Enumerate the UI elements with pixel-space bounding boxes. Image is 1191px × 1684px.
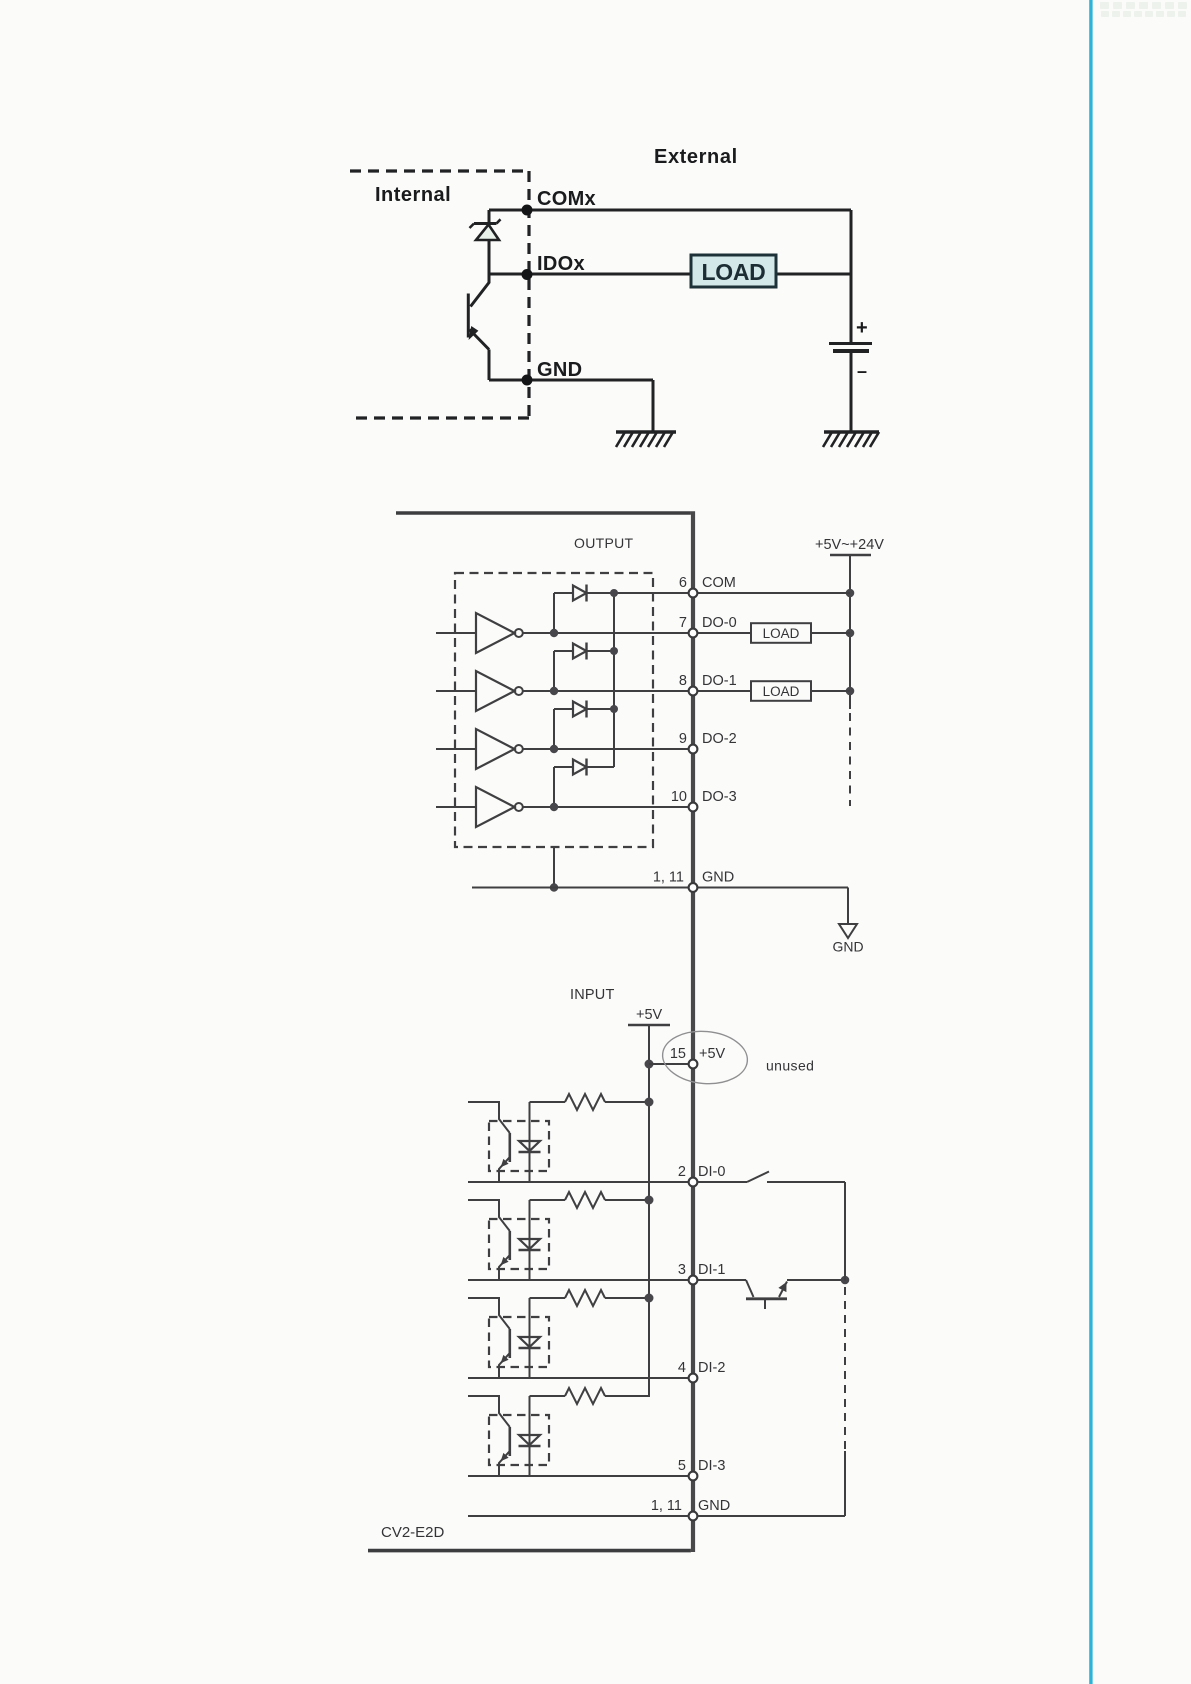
- svg-text:INPUT: INPUT: [570, 987, 615, 1003]
- wire right vertical dashed: [844, 1287, 846, 1451]
- svg-text:8: 8: [679, 673, 687, 689]
- decorative blue rule: [1089, 0, 1092, 1684]
- svg-text:IDOx: IDOx: [537, 253, 585, 275]
- supply rail bar: [830, 554, 871, 556]
- svg-text:1, 11: 1, 11: [653, 870, 684, 886]
- zener diode D1: [470, 219, 501, 274]
- diode D4: [554, 759, 614, 804]
- transistor Q2 external: [697, 1280, 845, 1309]
- battery BT1: [829, 344, 872, 432]
- connector bus thick vertical: [691, 511, 695, 1552]
- svg-text:GND: GND: [702, 870, 734, 886]
- wire DI-1: [468, 1279, 689, 1281]
- diode D3: [554, 701, 614, 746]
- wire COMx: [489, 209, 851, 212]
- supply rail wire: [849, 555, 851, 709]
- ground symbol left: [616, 432, 676, 447]
- svg-text:DI-2: DI-2: [698, 1360, 725, 1376]
- pin 5 DI-3: [678, 1458, 725, 1480]
- ground symbol GND arrow: [839, 924, 857, 938]
- transistor Q1: [468, 274, 489, 380]
- junction +24V/COM: [846, 589, 855, 598]
- wire LOAD to supply DO-1: [811, 690, 850, 692]
- svg-text:DI-0: DI-0: [698, 1164, 725, 1180]
- svg-text:2: 2: [678, 1164, 686, 1180]
- svg-text:+5V: +5V: [699, 1046, 726, 1062]
- inverter U1D: [436, 787, 689, 827]
- +5V rail bar: [628, 1024, 670, 1026]
- svg-text:6: 6: [679, 575, 687, 591]
- svg-text:DI-1: DI-1: [698, 1262, 725, 1278]
- internal dashed boundary box: [350, 171, 529, 418]
- node COMx: [522, 205, 533, 216]
- wire GND: [489, 380, 653, 431]
- wire GND pin 1,11: [472, 888, 848, 925]
- LOAD box DO-0: [751, 623, 811, 643]
- junction DO-3 anode tap: [550, 803, 558, 811]
- junction DO-0 anode tap: [550, 629, 558, 637]
- inverter U1B: [436, 671, 689, 711]
- wire COM to supply: [697, 592, 850, 594]
- wire COMx to diode: [488, 210, 491, 224]
- svg-text:COM: COM: [702, 575, 736, 591]
- resistor R3: [530, 1290, 650, 1306]
- pin 15 +5V: [670, 1046, 726, 1068]
- junction +24V/DO-1: [846, 687, 855, 696]
- pin 7 DO-0: [679, 615, 737, 637]
- svg-text:LOAD: LOAD: [763, 684, 800, 699]
- wire right vertical lower solid: [844, 1451, 846, 1516]
- svg-text:10: 10: [671, 789, 687, 805]
- inverter U1C: [436, 729, 689, 769]
- pin 3 DI-1: [678, 1262, 725, 1284]
- unused ellipse: [660, 1028, 749, 1087]
- pin 9 DO-2: [679, 731, 737, 753]
- svg-text:–: –: [857, 361, 867, 381]
- svg-text:3: 3: [678, 1262, 686, 1278]
- svg-text:15: 15: [670, 1046, 686, 1062]
- svg-text:+: +: [856, 317, 868, 339]
- junction DO-2 anode tap: [550, 745, 558, 753]
- svg-text:5: 5: [678, 1458, 686, 1474]
- supply rail dashed continuation: [849, 713, 851, 806]
- wire DI-2: [468, 1377, 689, 1379]
- pin 10 DO-3: [671, 789, 737, 811]
- ground symbol right: [823, 432, 879, 447]
- svg-text:DO-2: DO-2: [702, 731, 737, 747]
- switch on DI-0: [697, 1172, 845, 1183]
- connector edge thick line top: [396, 511, 691, 515]
- faint ghost marks top right: [1100, 2, 1187, 17]
- svg-text:Internal: Internal: [375, 184, 451, 206]
- resistor R4: [530, 1388, 650, 1404]
- svg-text:1, 11: 1, 11: [651, 1498, 682, 1514]
- diode D1: [554, 585, 689, 630]
- node IDOx: [522, 269, 533, 280]
- svg-text:+5V: +5V: [636, 1007, 663, 1023]
- svg-text:LOAD: LOAD: [763, 626, 800, 641]
- wire right vertical solid: [844, 1182, 846, 1281]
- wire GND stub from IC box: [553, 847, 555, 888]
- pin 6 COM: [679, 575, 736, 597]
- pin 4 DI-2: [678, 1360, 725, 1382]
- junction rail pin15: [645, 1060, 654, 1069]
- wire DI-3: [468, 1475, 689, 1477]
- wire pin15: [649, 1063, 689, 1065]
- LOAD box DO-1: [751, 681, 811, 701]
- junction rail R2: [645, 1196, 654, 1205]
- junction rail R3: [645, 1294, 654, 1303]
- +5V rail wire: [605, 1025, 649, 1396]
- junction cathode bus D3: [610, 705, 618, 713]
- junction cathode bus COM: [610, 589, 618, 597]
- resistor R2: [530, 1192, 650, 1208]
- svg-text:+5V~+24V: +5V~+24V: [815, 537, 884, 553]
- svg-text:DO-0: DO-0: [702, 615, 737, 631]
- svg-text:COMx: COMx: [537, 188, 596, 210]
- svg-text:unused: unused: [766, 1058, 814, 1074]
- junction DO-1 anode tap: [550, 687, 558, 695]
- opto-coupler PC2: [468, 1200, 549, 1280]
- svg-text:GND: GND: [832, 939, 863, 955]
- wire IDOx: [489, 273, 851, 276]
- svg-text:DO-1: DO-1: [702, 673, 737, 689]
- opto-coupler PC1: [468, 1102, 549, 1182]
- svg-text:OUTPUT: OUTPUT: [574, 535, 633, 551]
- pin 1,11 GND: [653, 870, 734, 892]
- output IC dashed box: [455, 573, 653, 847]
- svg-text:External: External: [654, 146, 738, 168]
- opto-coupler PC3: [468, 1298, 549, 1378]
- wire GND 1,11 input: [468, 1515, 845, 1517]
- wire LOAD to supply DO-0: [811, 632, 850, 634]
- pin 2 DI-0: [678, 1164, 725, 1186]
- svg-text:LOAD: LOAD: [702, 259, 766, 285]
- opto-coupler PC4: [468, 1396, 549, 1476]
- connector edge thick line bottom: [368, 1549, 691, 1553]
- LOAD box (top schematic): [691, 255, 776, 287]
- junction cathode bus D2: [610, 647, 618, 655]
- diode D2: [554, 643, 614, 688]
- svg-text:GND: GND: [698, 1498, 730, 1514]
- wire DO-0 to LOAD: [697, 632, 751, 634]
- svg-text:9: 9: [679, 731, 687, 747]
- svg-text:4: 4: [678, 1360, 686, 1376]
- pin 8 DO-1: [679, 673, 737, 695]
- resistor R1: [530, 1094, 650, 1110]
- svg-text:DI-3: DI-3: [698, 1458, 725, 1474]
- pin 1,11 GND input: [651, 1498, 730, 1520]
- node GND: [522, 375, 533, 386]
- svg-text:CV2-E2D: CV2-E2D: [381, 1524, 445, 1541]
- junction GND stub: [550, 883, 558, 891]
- svg-text:GND: GND: [537, 359, 582, 381]
- wire battery top: [850, 210, 853, 342]
- junction DI-1 right: [841, 1276, 850, 1285]
- junction rail R1: [645, 1098, 654, 1107]
- svg-text:DO-3: DO-3: [702, 789, 737, 805]
- junction +24V/DO-0: [846, 629, 855, 638]
- diode cathode bus wire: [613, 593, 615, 767]
- inverter U1A: [436, 613, 689, 653]
- wire DO-1 to LOAD: [697, 690, 751, 692]
- wire DI-0: [468, 1181, 689, 1183]
- svg-text:7: 7: [679, 615, 687, 631]
